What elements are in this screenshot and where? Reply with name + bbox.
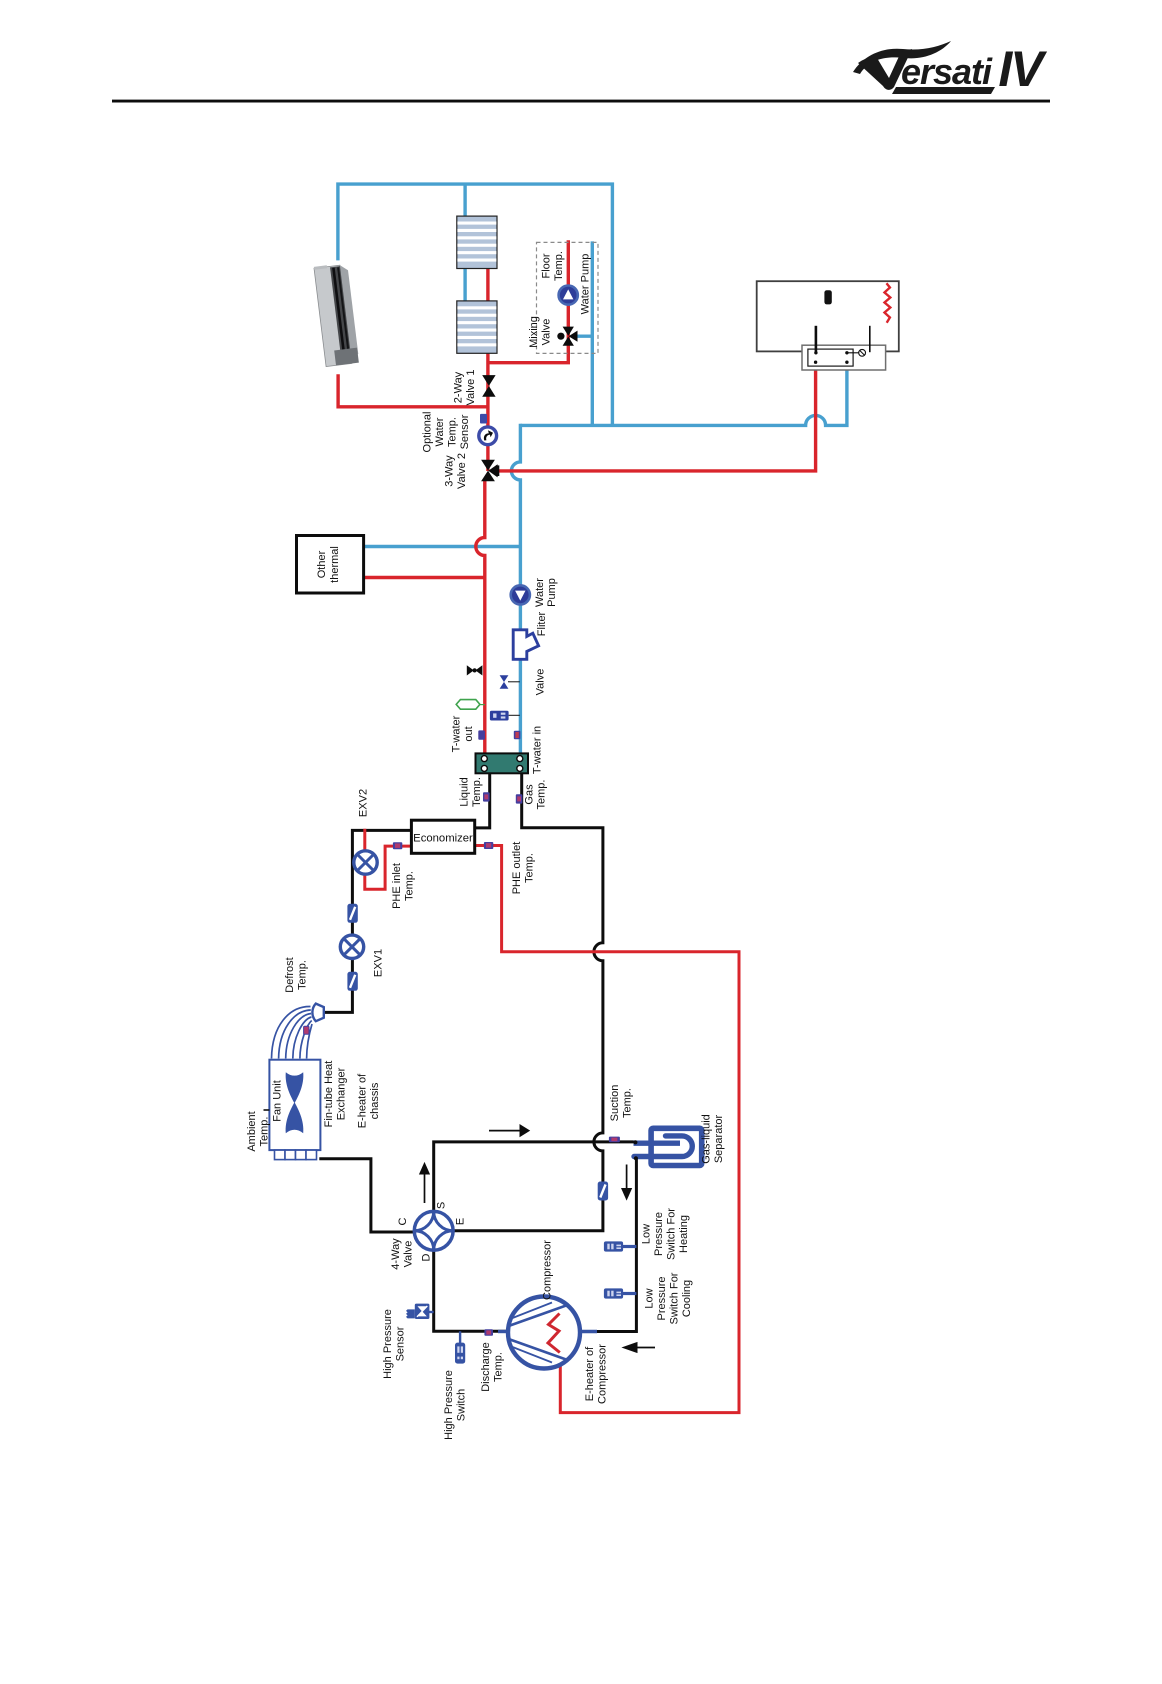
pipe red between radiators [486,268,489,302]
flow arrow left into compressor [621,1342,655,1353]
svg-text:Economizer: Economizer [413,833,473,845]
3-way valve 2 [481,460,499,482]
svg-text:Switch For: Switch For [666,1208,678,1260]
radiator 2 [457,301,497,353]
EXV1 [340,935,363,958]
fan coil unit [314,263,359,367]
svg-text:Fliter: Fliter [536,611,548,636]
pipe economizer to EXV1 chain [324,830,412,1012]
pipe blue other thermal [364,545,521,548]
svg-text:Temp.: Temp. [447,417,459,447]
svg-text:Mixing: Mixing [528,316,540,348]
compressor [498,1297,597,1369]
svg-text:T-water in: T-water in [532,726,544,774]
strainer below EXV1 [347,972,357,991]
liquid temp tick [483,792,490,801]
label e-heater of compressor [584,1344,609,1404]
low pressure switch heating [604,1241,637,1251]
water tank [757,281,899,351]
svg-text:Water: Water [534,578,546,607]
svg-text:Switch For: Switch For [669,1272,681,1324]
label floor water pump [580,254,592,315]
svg-text:T-water: T-water [451,715,463,752]
2-way valve 1 [482,375,495,397]
svg-text:Low: Low [641,1224,653,1244]
header rule [112,100,1050,103]
svg-text:Suction: Suction [609,1085,621,1122]
label 2-way valve 1 [453,370,477,406]
gas temp tick [516,794,523,803]
svg-text:Temp.: Temp. [404,871,416,901]
svg-text:out: out [463,726,475,741]
label discharge temp [480,1342,505,1392]
port letter C [397,1217,409,1225]
svg-text:Gas-liquid: Gas-liquid [701,1114,713,1164]
port letter D [421,1253,433,1261]
plate heat exchanger [476,753,529,773]
distributor cone [312,1004,323,1022]
pipe red main valve line [486,353,489,472]
PHE outlet temp tick [484,842,493,849]
svg-text:Compressor: Compressor [597,1344,609,1404]
svg-text:Optional: Optional [422,412,434,453]
svg-text:E-heater of: E-heater of [584,1346,596,1401]
label liquid temp [459,777,484,807]
pipe liquid PHE to economizer [475,773,490,828]
shutoff valve blue [500,675,520,689]
label compressor [542,1240,554,1300]
pipe red tank supply [496,361,816,471]
label EXV2 [358,789,370,817]
pipe blue floor return [591,241,594,425]
pipe suction 4way-S to separator [434,1142,635,1210]
label PHE inlet temp [391,863,416,909]
svg-text:Valve: Valve [535,669,547,696]
svg-text:Temp.: Temp. [493,1352,505,1382]
pipe red unit outlet vertical with hop [476,480,485,755]
svg-text:3-Way: 3-Way [444,455,456,487]
expansion vessel green [456,700,485,710]
svg-text:Exchanger: Exchanger [336,1067,348,1120]
svg-text:S: S [436,1202,448,1209]
svg-text:Water: Water [434,417,446,446]
EXV2 [354,851,377,874]
low pressure switch cooling [604,1288,637,1298]
svg-text:E: E [455,1218,467,1225]
svg-text:Compressor: Compressor [542,1240,554,1300]
pipe blue top loop [338,184,613,425]
label T-water in [532,726,544,774]
pipe blue between radiators [463,268,466,302]
label e-heater of chassis [357,1073,382,1128]
port letter S [436,1202,448,1209]
svg-text:High Pressure: High Pressure [443,1370,455,1440]
pipe blue radiator drop [463,184,466,217]
PHE inlet temp tick [393,842,402,849]
svg-text:Temp.: Temp. [622,1088,634,1118]
label other thermal [316,546,341,583]
pipe separator outlet to compressor [593,1159,636,1332]
flow arrow right on suction line [489,1124,530,1137]
label valve [535,669,547,696]
label floor temp [541,251,566,281]
label T-water out [451,715,476,752]
4-way valve [414,1211,453,1250]
drain valve black [467,665,483,675]
label PHE outlet temp [511,842,536,895]
svg-text:Valve: Valve [541,319,553,346]
suction temp tick [609,1137,620,1143]
pipe blue main return horizontal with hop [520,361,847,425]
optional water temp sensor [479,427,497,445]
svg-text:Temp.: Temp. [524,853,536,883]
svg-text:Heating: Heating [678,1215,690,1253]
svg-text:Low: Low [644,1288,656,1308]
svg-text:ersati: ersati [901,51,993,92]
svg-text:EXV2: EXV2 [358,789,370,817]
optional water temp sensor tick [480,414,487,424]
svg-text:Fan Unit: Fan Unit [272,1080,284,1122]
svg-text:EXV1: EXV1 [373,949,385,977]
svg-text:2-Way: 2-Way [453,371,465,403]
label high pressure switch [443,1370,468,1440]
label suction temp [609,1085,634,1122]
svg-text:Ambient: Ambient [246,1111,258,1151]
SEC:WATER [319,773,739,1412]
strainer above EXV1 [347,904,357,923]
svg-text:Temp.: Temp. [297,960,309,990]
svg-text:Valve 2: Valve 2 [456,453,468,489]
T-water in sensor tick [514,731,521,739]
svg-text:Water Pump: Water Pump [580,254,592,315]
pipe red fancoil return [338,374,488,407]
label gas temp [524,780,548,810]
defrost temp tick [304,1026,309,1034]
label 3-way valve 2 [444,453,469,489]
svg-text:Temp.: Temp. [553,251,565,281]
svg-text:Fin-tube Heat: Fin-tube Heat [323,1061,335,1128]
flow arrow down beside separator outlet [621,1165,632,1201]
discharge temp tick [484,1329,493,1335]
svg-text:chassis: chassis [369,1082,381,1119]
pipe red other thermal [364,576,485,579]
svg-text:Pressure: Pressure [656,1276,668,1320]
pipe gas PHE to 4-way E with hops [454,773,603,1230]
economizer [411,820,474,853]
pipe fin-tube to 4way-C [319,1159,414,1232]
label fan unit [272,1080,284,1122]
svg-text:Discharge: Discharge [480,1342,492,1392]
pipe blue mixing valve stub [573,335,592,338]
svg-text:4-Way: 4-Way [390,1238,402,1270]
logo Versati IV [853,41,1047,97]
pipe red EXV2 branch [365,829,412,889]
svg-text:Pump: Pump [546,578,558,607]
svg-text:Sensor: Sensor [459,414,471,449]
svg-text:Other: Other [316,550,328,578]
label fin-tube heat exchanger [323,1061,348,1128]
fin-tube coil arcs [272,1006,313,1058]
label EXV1 [373,949,385,977]
mixing valve [557,327,577,346]
label low pressure switch for heating [641,1208,691,1260]
floor heating dashed box [537,242,599,353]
label gas-liquid separator [701,1114,726,1164]
svg-text:Defrost: Defrost [284,957,296,992]
fan unit box [264,1060,321,1160]
tank connection box [802,326,886,370]
svg-text:Sensor: Sensor [395,1326,407,1361]
SEC:HEADER [338,184,847,755]
svg-text:Floor: Floor [541,253,553,278]
label mixing valve [528,316,553,348]
high pressure switch [455,1331,465,1363]
pipe red vapor injection [475,846,739,1413]
floor water pump [559,286,578,305]
high pressure sensor [406,1304,434,1319]
svg-text:Separator: Separator [713,1115,725,1164]
gas-liquid separator [633,1128,701,1165]
pipe discharge 4way-D to compressor [434,1251,509,1331]
svg-text:Switch: Switch [456,1389,468,1421]
svg-text:PHE inlet: PHE inlet [391,863,403,909]
label low pressure switch for cooling [644,1272,694,1324]
radiator 1 [457,216,497,268]
label optional water temp sensor [422,412,472,453]
svg-text:Pressure: Pressure [653,1212,665,1256]
pipe red mixing branch [488,240,568,362]
svg-text:Temp.: Temp. [259,1117,271,1147]
svg-text:Valve 1: Valve 1 [465,370,477,406]
unit water pump [511,585,530,604]
filter [513,630,538,660]
label 4-way valve [390,1238,415,1270]
svg-text:E-heater of: E-heater of [357,1073,369,1128]
label ambient temp [246,1111,271,1151]
svg-text:D: D [421,1253,433,1261]
svg-text:Temp.: Temp. [536,780,548,810]
svg-text:PHE outlet: PHE outlet [511,842,523,895]
svg-text:thermal: thermal [329,546,341,583]
other thermal box [297,536,364,594]
flow switch [490,711,520,721]
svg-text:IV: IV [998,41,1047,97]
pipe blue unit inlet vertical with hop [511,424,520,755]
svg-text:Valve: Valve [403,1241,415,1268]
label high pressure sensor [382,1309,407,1379]
svg-text:Gas: Gas [524,784,536,805]
label filter [536,611,548,636]
svg-text:Temp.: Temp. [471,777,483,807]
svg-text:Cooling: Cooling [681,1280,693,1317]
svg-text:High Pressure: High Pressure [382,1309,394,1379]
label unit water pump [534,578,558,607]
flow arrow up beside 4-way S [419,1162,430,1203]
strainer on gas line [598,1182,608,1201]
svg-text:C: C [397,1217,409,1225]
svg-text:Liquid: Liquid [459,777,471,806]
T-water out sensor tick [478,730,485,739]
label defrost temp [284,957,309,992]
port letter E [455,1218,467,1225]
